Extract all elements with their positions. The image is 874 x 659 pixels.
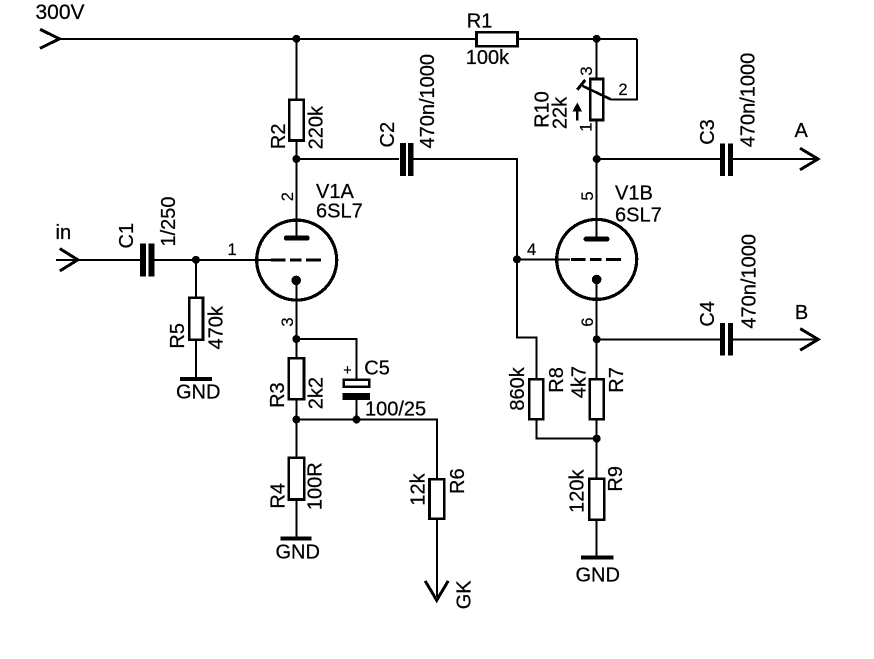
node junction pin 6 / C4 / R7 bbox=[593, 335, 601, 343]
svg-text:C1: C1 bbox=[116, 223, 138, 249]
svg-text:4k7: 4k7 bbox=[569, 366, 591, 398]
svg-text:220k: 220k bbox=[306, 105, 328, 149]
GK arrow bbox=[425, 581, 448, 600]
wire C5 bottom to node bbox=[356, 400, 358, 420]
svg-text:R3: R3 bbox=[267, 382, 289, 408]
svg-text:860k: 860k bbox=[507, 366, 529, 410]
svg-text:1: 1 bbox=[228, 241, 237, 259]
svg-text:C4: C4 bbox=[697, 301, 719, 327]
wire R6 bottom to GK arrow bbox=[436, 519, 438, 597]
resistor R9 bbox=[589, 479, 604, 520]
svg-text:R5: R5 bbox=[167, 323, 189, 349]
node junction top rail / R2 bbox=[292, 35, 300, 43]
wire C3 right to output A bbox=[733, 158, 817, 160]
svg-text:B: B bbox=[795, 302, 808, 324]
resistor R6 bbox=[430, 479, 445, 518]
tube V1A cathode dot bbox=[291, 276, 301, 286]
wire cathode node to C5 top bbox=[296, 339, 356, 380]
wire cathode node to C4 left bbox=[597, 338, 721, 340]
node junction pin 3 / R3 / C5 bbox=[292, 335, 300, 343]
svg-text:470n/1000: 470n/1000 bbox=[739, 234, 761, 329]
capacitor C1 bbox=[140, 243, 154, 276]
wire V1B grid (pin 4) bbox=[517, 258, 570, 260]
svg-text:C3: C3 bbox=[697, 119, 719, 145]
output arrow B bbox=[800, 329, 818, 351]
tube V1A envelope bbox=[257, 220, 337, 300]
ground GND below R9 bbox=[576, 558, 620, 587]
svg-text:470k: 470k bbox=[206, 305, 228, 349]
svg-text:R2: R2 bbox=[268, 124, 290, 150]
wire cathode bottom node to R6 bbox=[296, 420, 437, 480]
svg-text:470n/1000: 470n/1000 bbox=[738, 53, 760, 148]
potentiometer R10 direction arrow bbox=[572, 102, 582, 120]
svg-text:C2: C2 bbox=[377, 122, 399, 148]
svg-text:120k: 120k bbox=[567, 469, 589, 513]
svg-text:100R: 100R bbox=[305, 462, 327, 510]
svg-text:4: 4 bbox=[527, 241, 536, 259]
node junction R7 / R8 / R9 bbox=[593, 435, 601, 443]
wire pot top terminal 3 bbox=[596, 39, 598, 79]
wire pot terminal-2 feed (corner right of R1 down to wiper level) bbox=[611, 39, 638, 100]
svg-text:V1B: V1B bbox=[615, 182, 653, 204]
svg-text:12k: 12k bbox=[408, 472, 430, 505]
node junction pin 4 grid bbox=[513, 255, 521, 263]
ground GND below R4 bbox=[276, 539, 320, 564]
resistor R1 bbox=[477, 32, 518, 46]
tube V1B grid dashes bbox=[571, 258, 621, 261]
capacitor C3 bbox=[720, 143, 733, 176]
potentiometer R10 body bbox=[590, 79, 603, 120]
svg-text:in: in bbox=[56, 222, 72, 244]
svg-text:R1: R1 bbox=[467, 11, 493, 33]
potentiometer R10 wiper T-bar bbox=[577, 80, 585, 90]
tube V1A grid dashes bbox=[271, 259, 321, 262]
input arrow in bbox=[60, 249, 78, 271]
svg-text:6SL7: 6SL7 bbox=[615, 204, 662, 226]
resistor R5 bbox=[189, 298, 203, 340]
capacitor C5 electrolytic bbox=[342, 380, 370, 400]
node junction R2 bottom / C2 bbox=[292, 155, 300, 163]
tube V1B cathode dot bbox=[592, 275, 602, 285]
wire R5 branch to ground bbox=[195, 260, 197, 378]
resistor R4 bbox=[289, 458, 305, 500]
node junction C5 bottom bbox=[353, 416, 361, 424]
svg-text:A: A bbox=[795, 120, 809, 142]
svg-text:1: 1 bbox=[577, 123, 595, 132]
svg-text:3: 3 bbox=[578, 66, 596, 75]
wire C1 right to V1A grid (pin 1) bbox=[154, 259, 272, 261]
wire input to C1 bbox=[56, 259, 140, 261]
wire V1B cathode through R7 R9 to ground bbox=[596, 280, 598, 558]
tube V1A anode plate bbox=[287, 235, 308, 240]
svg-text:GK: GK bbox=[454, 580, 476, 610]
svg-text:3: 3 bbox=[279, 317, 297, 326]
svg-text:GND: GND bbox=[276, 542, 320, 564]
svg-text:6SL7: 6SL7 bbox=[316, 201, 363, 223]
svg-text:C5: C5 bbox=[364, 358, 390, 380]
svg-text:1/250: 1/250 bbox=[158, 196, 180, 246]
wire pot bottom terminal 1 to V1B anode bbox=[596, 120, 598, 237]
node junction top rail / R1 right / pot bbox=[593, 35, 601, 43]
svg-text:R4: R4 bbox=[268, 483, 290, 509]
svg-text:R8: R8 bbox=[546, 367, 568, 393]
wire C2 right to grid node of V1B bbox=[408, 159, 536, 379]
wire C4 right to output B bbox=[733, 338, 818, 340]
output arrow A bbox=[800, 148, 818, 170]
svg-text:2k2: 2k2 bbox=[306, 377, 328, 409]
svg-text:2: 2 bbox=[618, 81, 627, 99]
svg-text:+: + bbox=[343, 363, 351, 379]
wire node to C3 left bbox=[597, 158, 721, 160]
svg-text:R7: R7 bbox=[606, 367, 628, 393]
wire V1A cathode through R3 R4 to ground bbox=[295, 280, 297, 537]
capacitor C4 bbox=[720, 323, 733, 356]
svg-text:GND: GND bbox=[576, 564, 620, 586]
wire R8 bottom to R7 bottom node bbox=[536, 419, 596, 438]
svg-text:2: 2 bbox=[279, 192, 297, 201]
resistor R3 bbox=[289, 358, 304, 399]
wire node to C2 left bbox=[296, 158, 399, 160]
tube V1B envelope bbox=[557, 219, 637, 299]
tube V1B anode plate bbox=[586, 236, 607, 241]
potentiometer R10 wiper diagonal bbox=[583, 86, 611, 99]
svg-text:100/25: 100/25 bbox=[365, 399, 426, 421]
resistor R2 bbox=[289, 100, 304, 141]
node junction R3 bottom / R4 bbox=[292, 416, 300, 424]
resistor R8 bbox=[529, 379, 543, 419]
svg-text:100k: 100k bbox=[466, 47, 510, 69]
svg-text:6: 6 bbox=[579, 318, 597, 327]
300V supply arrow bbox=[40, 29, 60, 48]
svg-text:470n/1000: 470n/1000 bbox=[417, 54, 439, 149]
svg-text:GND: GND bbox=[176, 382, 220, 404]
capacitor C2 bbox=[400, 143, 413, 176]
node junction C1 / R5 / pin 1 bbox=[192, 256, 200, 264]
svg-text:5: 5 bbox=[579, 191, 597, 200]
ground GND below R5 bbox=[176, 379, 220, 404]
node junction pot bottom / C3 / pin 5 bbox=[593, 155, 601, 163]
wire 300V top rail bbox=[60, 38, 638, 40]
svg-text:R9: R9 bbox=[605, 466, 627, 492]
resistor R7 bbox=[590, 379, 604, 419]
svg-text:22k: 22k bbox=[549, 96, 571, 129]
svg-text:300V: 300V bbox=[36, 1, 85, 24]
svg-text:R6: R6 bbox=[447, 468, 469, 494]
wire R2 branch vertical (top rail to V1A anode) bbox=[295, 39, 297, 237]
